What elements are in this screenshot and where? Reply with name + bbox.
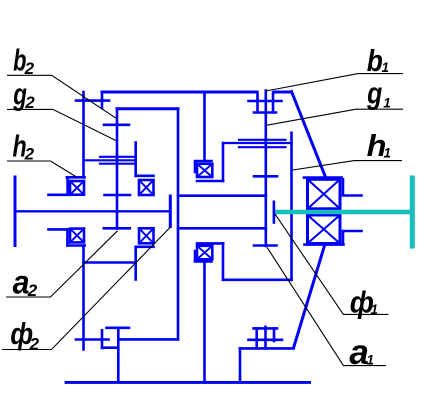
- leader a1: [267, 247, 386, 365]
- gear tick on a1 shaft upper: [254, 175, 277, 178]
- gear phi2 T bar: [107, 326, 130, 329]
- gear a1 lattice tick mid: [264, 327, 267, 349]
- svg-text:b: b: [367, 44, 383, 78]
- gear a1 lattice low bar: [249, 338, 283, 341]
- bearing big upper hook: [343, 179, 362, 195]
- node cyan shaft end bar: [410, 176, 415, 249]
- carrier h2 long vertical: [177, 109, 180, 340]
- wire short drop V3: [101, 92, 104, 108]
- wire V8 lower: [203, 263, 206, 383]
- gear phi2 left tick: [76, 338, 109, 341]
- gear g2 tick: [104, 124, 129, 127]
- clutch sandwich middle line: [84, 159, 136, 161]
- bearing big lower seat: [305, 243, 344, 246]
- bearing mid lower seat: [197, 242, 223, 245]
- node output shaft end bar: [273, 202, 276, 223]
- gear a1 lattice top bar: [254, 327, 278, 330]
- gear a1 lattice tick right: [273, 328, 276, 341]
- wire diagonal upper right: [292, 92, 326, 178]
- gear b2 mesh tick: [76, 99, 109, 102]
- bearing left lower seat: [49, 228, 68, 231]
- wire cyan shaft horizontal: [276, 210, 412, 214]
- svg-text:1: 1: [384, 145, 392, 160]
- wire shaft b2 lower vertical: [82, 246, 85, 350]
- bearing mid upper seat: [197, 180, 223, 183]
- shaft planet g2 vertical: [116, 109, 119, 229]
- svg-text:1: 1: [382, 60, 390, 75]
- gear b1 mesh line lower: [254, 111, 276, 114]
- svg-text:g: g: [366, 76, 382, 110]
- leader g1: [266, 109, 403, 125]
- bearing left upper seat: [49, 194, 71, 197]
- bearing mid-left upper: [139, 180, 154, 195]
- wire bottom rail: [66, 381, 310, 384]
- wire long line upper: [178, 194, 266, 197]
- gear b1 tick right: [272, 93, 275, 111]
- wire long line lower: [178, 227, 266, 230]
- coupling right sandwich bottom: [239, 146, 286, 148]
- wire top rail 1: [102, 91, 257, 94]
- bearing mid-left lower: [139, 228, 154, 243]
- bearing left upper bracket: [66, 177, 69, 194]
- leader a2: [6, 231, 118, 297]
- bearing mid lower: [197, 246, 212, 259]
- gear phi2 mesh tick: [101, 330, 104, 348]
- svg-text:2: 2: [24, 93, 35, 112]
- gear a1 tick lower: [254, 244, 277, 247]
- bearing left upper: [70, 181, 84, 195]
- bearing mid lower cap: [195, 251, 212, 262]
- bearing mid-left lower cap: [136, 246, 154, 249]
- svg-text:2: 2: [24, 59, 35, 78]
- wire input shaft flange bar: [14, 177, 17, 246]
- carrier post V5 upper: [134, 143, 137, 177]
- svg-text:2: 2: [29, 334, 40, 353]
- wire lower connector to V12: [223, 278, 292, 281]
- wire V9 lower: [222, 243, 225, 279]
- leader phi1: [275, 214, 389, 315]
- bearing big upper seat: [304, 176, 342, 179]
- leader b2: [7, 75, 117, 118]
- clutch sandwich upper line: [100, 156, 134, 158]
- wire bottom horizontal to carrier: [118, 338, 178, 341]
- bearing left lower bracket: [66, 229, 69, 245]
- output shaft cyan: [276, 176, 413, 249]
- node coupling bar left shaft: [169, 196, 172, 227]
- svg-text:1: 1: [371, 302, 379, 317]
- wire input shaft centerline: [15, 210, 170, 212]
- wire V9 upper: [222, 143, 225, 181]
- leader phi2: [2, 227, 171, 350]
- bearing big lower hook: [343, 231, 362, 244]
- leader g2: [7, 109, 116, 140]
- leader b1: [266, 74, 403, 91]
- clutch sandwich lower line: [100, 163, 134, 165]
- wire top rail 1 right part: [274, 91, 292, 94]
- svg-text:1: 1: [383, 96, 391, 111]
- wire step horizontal: [102, 346, 118, 349]
- coupling right sandwich middle: [223, 142, 292, 144]
- bearing left lower cap: [67, 244, 84, 247]
- wire lower-left horizontal: [84, 261, 136, 264]
- wire vertical to bottom rail: [239, 348, 242, 382]
- svg-text:2: 2: [24, 145, 35, 164]
- bearing mid upper cap: [195, 161, 212, 172]
- gear a2 lower tick: [104, 227, 130, 230]
- bearing big upper: [308, 179, 341, 209]
- bearing big lower: [308, 215, 341, 244]
- bearing left lower: [70, 229, 84, 243]
- wire V8 upper: [203, 92, 206, 161]
- bearing mid-left upper cap: [136, 175, 154, 178]
- wire top rail 2: [117, 107, 178, 110]
- leader h1: [293, 161, 402, 170]
- wire diagonal lower right: [294, 244, 326, 348]
- gear a1 lattice tick left: [255, 328, 258, 348]
- gear phi2 T stem vertical: [117, 328, 120, 383]
- carrier h1 vertical V12: [290, 133, 293, 280]
- carrier post V5 lower: [134, 247, 137, 280]
- coupling right sandwich top: [239, 139, 286, 141]
- bearing mid upper: [197, 164, 212, 177]
- bearing left upper cap: [67, 176, 85, 179]
- gear a2 upper tick: [105, 194, 131, 197]
- leader h2: [7, 161, 76, 177]
- gear b2 vertical (ring gear): [82, 92, 85, 178]
- gear b1 mesh line upper: [249, 100, 282, 103]
- svg-text:2: 2: [27, 281, 38, 300]
- shaft sun a1 vertical V11: [264, 91, 267, 247]
- gear b1 tick left: [256, 93, 259, 111]
- svg-text:1: 1: [367, 353, 375, 368]
- wire shelf bottom right: [240, 347, 294, 350]
